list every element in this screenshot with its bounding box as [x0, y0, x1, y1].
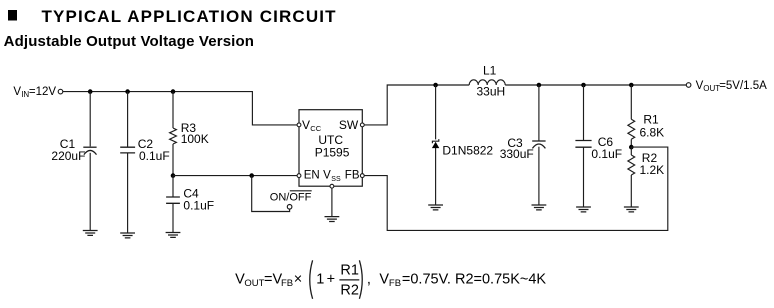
wire VIN rail to VCC corner: [63, 92, 297, 125]
svg-text:=5V/1.5A: =5V/1.5A: [719, 80, 767, 92]
junction ON/OFF tap: [249, 173, 254, 178]
svg-text:ON/OFF: ON/OFF: [270, 192, 312, 204]
formula VOUT=VFB&#215;(1+R1/R2), VFB=0.75V. R2=0.75K~4K: [235, 260, 546, 299]
svg-text:1: 1: [316, 272, 324, 288]
resistor R3: [170, 92, 177, 176]
svg-text:Adjustable Output Voltage Vers: Adjustable Output Voltage Version: [4, 33, 255, 50]
inductor L1: [469, 80, 505, 85]
label ON/OFF: [270, 191, 312, 204]
svg-text:R1: R1: [340, 263, 359, 279]
junction FB divider node: [629, 145, 634, 150]
junction R3 on VIN rail: [171, 89, 176, 94]
svg-text:0.1uF: 0.1uF: [139, 149, 170, 163]
resistor R2: [628, 147, 635, 207]
ground C2: [120, 233, 135, 238]
svg-text:100K: 100K: [181, 132, 209, 146]
wire FB feedback path: [364, 147, 668, 230]
title bullet: [8, 10, 17, 21]
svg-text:=0.75V. R2=0.75K~4K: =0.75V. R2=0.75K~4K: [402, 272, 547, 288]
resistor R1 label: [640, 113, 665, 140]
svg-text:6.8K: 6.8K: [640, 126, 665, 140]
junction C3 node: [537, 83, 542, 88]
node ON/OFF terminal: [287, 205, 292, 210]
capacitor C4 label: [183, 187, 214, 213]
svg-text:=12V: =12V: [29, 86, 57, 98]
junction diode node: [433, 83, 438, 88]
svg-text:CC: CC: [310, 124, 321, 133]
svg-text:SW: SW: [339, 118, 359, 132]
svg-text:330uF: 330uF: [500, 147, 534, 161]
svg-text:V: V: [13, 86, 21, 98]
pin VSS: [323, 169, 341, 188]
svg-text:SS: SS: [331, 176, 341, 183]
capacitor C4: [166, 176, 180, 233]
junction C6 node: [581, 83, 586, 88]
svg-text:1.2K: 1.2K: [640, 163, 665, 177]
wire EN node to EN pin: [173, 175, 297, 177]
node VIN label VIN=12V: [13, 86, 56, 99]
ground C1: [83, 231, 98, 236]
svg-text:OUT: OUT: [244, 278, 264, 289]
svg-text:L1: L1: [483, 64, 497, 78]
svg-text:×: ×: [294, 272, 302, 288]
label UTC P1595: [315, 133, 350, 160]
svg-text:D1N5822: D1N5822: [442, 143, 493, 157]
wire top rail L1 to VOUT: [505, 84, 686, 86]
ground C3: [532, 205, 547, 210]
capacitor C3: [532, 85, 545, 205]
wire ON/OFF branch: [252, 176, 290, 212]
svg-text:EN: EN: [304, 169, 320, 181]
svg-text:OUT: OUT: [703, 84, 720, 93]
resistor R1: [628, 85, 635, 147]
svg-text:V: V: [379, 272, 389, 288]
svg-text:220uF: 220uF: [51, 149, 85, 163]
junction C1 on VIN rail: [88, 89, 93, 94]
node VOUT terminal: [686, 83, 691, 88]
svg-text:0.1uF: 0.1uF: [183, 199, 214, 213]
resistor R2 label: [640, 151, 665, 177]
ground VSS: [325, 217, 340, 222]
wire SW to top rail: [364, 85, 469, 125]
svg-text:TYPICAL APPLICATION CIRCUIT: TYPICAL APPLICATION CIRCUIT: [42, 7, 337, 26]
svg-text:V: V: [302, 118, 310, 132]
resistor R3 label: [181, 121, 209, 146]
capacitor C2: [120, 92, 135, 233]
ground diode: [428, 205, 443, 210]
svg-text:R1: R1: [643, 113, 659, 127]
node VOUT label VOUT=5V/1.5A: [696, 80, 768, 93]
svg-text:FB: FB: [281, 278, 293, 289]
junction R1 node: [629, 83, 634, 88]
svg-text:P1595: P1595: [315, 146, 350, 160]
junction C2 on VIN rail: [125, 89, 130, 94]
pin VCC: [297, 118, 322, 133]
ground R2: [624, 207, 639, 212]
wire VSS to ground: [331, 188, 333, 217]
diode D1N5822: [432, 85, 439, 205]
capacitor C1: [83, 92, 96, 231]
svg-text:0.1uF: 0.1uF: [591, 147, 622, 161]
svg-text:V: V: [323, 169, 331, 181]
svg-text:FB: FB: [389, 278, 401, 289]
capacitor C1 label: [51, 137, 85, 163]
svg-text:+: +: [327, 272, 335, 288]
inductor L1 label: [477, 64, 506, 99]
svg-text:FB: FB: [345, 169, 360, 181]
capacitor C6: [575, 85, 591, 207]
pin FB: [345, 169, 364, 181]
capacitor C3 label: [500, 136, 534, 161]
svg-text:=V: =V: [264, 272, 282, 288]
svg-text:R2: R2: [340, 283, 359, 299]
capacitor C2 label: [138, 137, 170, 163]
ground C4: [166, 233, 181, 238]
op-amp U1 UTC P1595 box: [299, 110, 362, 187]
junction R3/C4/EN node: [171, 173, 176, 178]
ground C6: [576, 207, 591, 212]
pin SW: [339, 118, 364, 132]
capacitor C6 label: [591, 135, 622, 161]
node VIN terminal: [58, 89, 63, 94]
svg-text:,: ,: [367, 272, 371, 288]
pin EN: [297, 169, 320, 181]
svg-text:33uH: 33uH: [477, 85, 506, 99]
